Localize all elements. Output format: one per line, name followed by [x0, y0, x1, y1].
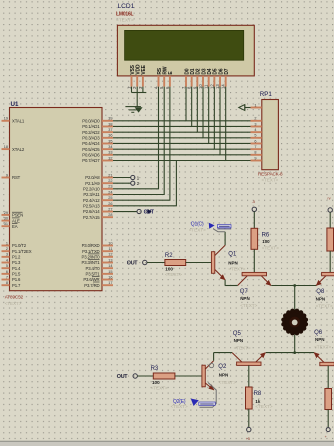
svg-text:Q1: Q1: [228, 251, 237, 257]
wire LCD VDD down: [136, 87, 138, 93]
svg-text:100: 100: [262, 239, 270, 244]
svg-text:P1.7: P1.7: [12, 283, 21, 288]
svg-text:RP1: RP1: [260, 91, 273, 98]
svg-text:P3.1/TXD: P3.1/TXD: [82, 249, 99, 254]
transistor Q2: [202, 365, 205, 387]
transistor Q8: [322, 272, 334, 275]
svg-text:VEE: VEE: [141, 64, 147, 74]
U1 EA overline: [12, 223, 18, 225]
resistor pack RP1 body: [262, 100, 279, 170]
motor: [282, 310, 307, 335]
svg-text:Q7: Q7: [240, 289, 249, 295]
svg-text:<TEXT>: <TEXT>: [165, 272, 182, 277]
svg-text:27: 27: [108, 207, 112, 211]
svg-text:<TEXT>: <TEXT>: [262, 177, 279, 182]
svg-text:RST: RST: [12, 175, 21, 180]
svg-text:P3.4/T0: P3.4/T0: [86, 266, 101, 271]
wire R8 to terminal: [248, 409, 250, 427]
wire bus P0.0-P0.7 to RP1: [113, 120, 251, 122]
voltage probe Q2(E): [200, 383, 217, 408]
U1 ALE overline: [12, 217, 20, 219]
svg-text:10: 10: [198, 84, 203, 89]
svg-text:3: 3: [6, 253, 8, 257]
svg-text:P0.5/AD5: P0.5/AD5: [82, 147, 100, 152]
svg-text:PSEN: PSEN: [12, 213, 23, 218]
LCD1 screen: [125, 30, 244, 60]
svg-text:8: 8: [6, 281, 8, 285]
svg-text:P1.6: P1.6: [12, 277, 21, 282]
wire rail Q5-motor-Q6: [266, 352, 314, 354]
svg-text:22: 22: [108, 179, 112, 183]
U1 INT0 overline: [88, 253, 100, 255]
wire terminal to R7: [329, 212, 331, 228]
U1 right pins with numbers and names: [102, 120, 113, 122]
svg-text:-5: -5: [252, 200, 255, 204]
svg-text:14: 14: [221, 84, 226, 89]
svg-text:30: 30: [4, 217, 8, 221]
svg-text:OUT: OUT: [117, 374, 128, 380]
svg-text:<TEXT>: <TEXT>: [219, 380, 236, 385]
wire R7 to Q8 base: [329, 251, 331, 272]
svg-text:9: 9: [6, 173, 8, 177]
svg-text:P0.6/AD6: P0.6/AD6: [82, 153, 100, 158]
svg-text:25: 25: [108, 196, 112, 200]
svg-text:P2.7/A15: P2.7/A15: [83, 215, 100, 220]
svg-text:P0.2/AD2: P0.2/AD2: [82, 130, 100, 135]
svg-text:P3.0/RXD: P3.0/RXD: [82, 243, 100, 248]
svg-text:<TEXT>: <TEXT>: [262, 245, 279, 250]
svg-text:35: 35: [108, 139, 112, 143]
svg-text:P0.7/AD7: P0.7/AD7: [82, 158, 100, 163]
svg-text:<TEXT>: <TEXT>: [240, 303, 257, 308]
U1 RD overline: [93, 281, 100, 283]
bottom bar: [0, 441, 334, 446]
svg-text:31: 31: [4, 222, 8, 226]
svg-text:NPN: NPN: [234, 338, 244, 343]
svg-text:LM016L: LM016L: [116, 12, 134, 18]
svg-text:5: 5: [6, 264, 8, 268]
svg-text:P3.5/T1: P3.5/T1: [86, 272, 101, 277]
svg-text:2: 2: [6, 247, 8, 251]
svg-text:OUT: OUT: [127, 260, 138, 266]
svg-text:37: 37: [108, 128, 112, 132]
wire Q5 base to R8: [248, 365, 250, 387]
svg-text:6: 6: [254, 139, 256, 143]
svg-text:P0.4/AD4: P0.4/AD4: [82, 141, 100, 146]
power terminal arrow: [239, 105, 245, 111]
svg-text:34: 34: [108, 145, 112, 149]
resistor R9: [325, 389, 332, 410]
microcontroller U1 body: [10, 108, 103, 291]
svg-text:P3.3/INT1: P3.3/INT1: [82, 260, 101, 265]
svg-text:33: 33: [108, 151, 112, 155]
wire RP1 pin1 to power: [245, 107, 251, 109]
wire U1 P2.0 to terminal 1: [113, 177, 131, 179]
wire U1 P2.1 to terminal 2: [113, 182, 131, 184]
svg-text:2: 2: [254, 117, 256, 121]
wire Q1 emitter down: [224, 280, 226, 286]
svg-text:1: 1: [254, 103, 256, 107]
svg-text:P2.6/A14: P2.6/A14: [83, 209, 100, 214]
svg-text:100: 100: [152, 380, 160, 385]
svg-text:P1.4: P1.4: [12, 266, 21, 271]
svg-text:P2.2/A10: P2.2/A10: [83, 187, 100, 192]
transistor Q1: [211, 252, 214, 274]
wire rail Q1-Q7: [225, 285, 238, 287]
svg-text:<TEXT>: <TEXT>: [228, 266, 245, 271]
wire LCD D0-D7 verticals to bus: [185, 87, 187, 121]
terminal node 1: [131, 175, 135, 179]
wire motor bottom feed: [294, 335, 296, 353]
RP1 pin stubs and numbers: [251, 107, 262, 109]
svg-text:11: 11: [204, 84, 209, 89]
svg-text:P1.3: P1.3: [12, 260, 21, 265]
svg-text:NPN: NPN: [316, 297, 326, 302]
svg-text:<TEXT>: <TEXT>: [255, 404, 272, 409]
svg-text:R8: R8: [254, 391, 262, 397]
svg-text:P3.2/INT0: P3.2/INT0: [82, 255, 101, 260]
svg-text:P2.4/A12: P2.4/A12: [83, 198, 100, 203]
svg-text:24: 24: [108, 190, 112, 194]
svg-text:NPN: NPN: [228, 260, 238, 265]
svg-text:7: 7: [254, 145, 256, 149]
junction motor bottom: [293, 351, 296, 354]
svg-text:P0.3/AD3: P0.3/AD3: [82, 136, 100, 141]
svg-text:<TEXT>: <TEXT>: [234, 345, 251, 350]
svg-text:+5: +5: [246, 437, 250, 441]
resistor R6: [251, 228, 258, 249]
power terminal above R6: [252, 207, 256, 211]
U1 INT1 overline: [88, 259, 100, 261]
transistor Q7: [242, 272, 266, 275]
wire R3 to Q2 base: [175, 375, 202, 377]
wire motor top feed: [294, 286, 296, 310]
svg-text:10: 10: [108, 241, 112, 245]
svg-text:16: 16: [108, 275, 112, 279]
svg-text:XTAL1: XTAL1: [12, 119, 25, 124]
svg-text:NPN: NPN: [240, 296, 250, 301]
terminal node 2: [131, 181, 135, 185]
svg-text:36: 36: [108, 134, 112, 138]
svg-text:13: 13: [215, 84, 220, 89]
power terminal above R7: [328, 208, 332, 212]
svg-text:8: 8: [254, 151, 256, 155]
transistor Q5: [237, 362, 261, 365]
svg-text:R6: R6: [262, 232, 270, 238]
svg-text:rv: rv: [328, 196, 331, 200]
wire R2 to Q1 base: [186, 262, 212, 264]
wire Q1 collector up: [224, 232, 226, 245]
svg-text:P1.2: P1.2: [12, 255, 21, 260]
svg-text:<TEXT>: <TEXT>: [314, 344, 331, 349]
ground: [125, 106, 140, 108]
voltage probe Q1(C): [209, 223, 215, 229]
svg-text:NPN: NPN: [219, 373, 229, 378]
svg-text:P0.0/AD0: P0.0/AD0: [82, 119, 100, 124]
svg-text:P3.7/RD: P3.7/RD: [84, 283, 99, 288]
svg-text:1: 1: [137, 175, 140, 181]
svg-text:3: 3: [254, 122, 256, 126]
power terminal below R8: [247, 427, 251, 431]
svg-text:NPN: NPN: [315, 337, 325, 342]
svg-text:18: 18: [4, 145, 8, 149]
svg-text:11: 11: [109, 247, 113, 251]
terminal node OUT (P2.6): [137, 209, 141, 213]
svg-text:5: 5: [254, 134, 256, 138]
svg-text:13: 13: [108, 258, 112, 262]
svg-text:XTAL2: XTAL2: [12, 147, 25, 152]
svg-text:P1.5: P1.5: [12, 272, 21, 277]
resistor R3: [153, 373, 175, 379]
wire OUT to R3: [137, 375, 153, 377]
svg-text:P0.1/AD1: P0.1/AD1: [82, 124, 100, 129]
svg-text:7: 7: [6, 275, 8, 279]
svg-text:EA: EA: [12, 224, 18, 229]
svg-text:28: 28: [108, 213, 112, 217]
wire LCD RS to U1 P2.2: [113, 87, 159, 189]
svg-text:<TEXT>: <TEXT>: [116, 18, 134, 24]
U1 PSEN overline: [12, 211, 23, 213]
wire R9 to terminal: [327, 410, 329, 428]
svg-text:4: 4: [6, 258, 8, 262]
wire tie to ground: [136, 93, 138, 107]
svg-text:LCD1: LCD1: [118, 3, 135, 10]
svg-text:38: 38: [108, 122, 112, 126]
svg-text:P3.6/WR: P3.6/WR: [83, 277, 99, 282]
wire LCD VEE down: [142, 87, 144, 93]
wire LCD E to U1 P2.4: [113, 87, 170, 201]
svg-text:15: 15: [108, 270, 112, 274]
svg-text:P1.1/T2EX: P1.1/T2EX: [12, 249, 32, 254]
svg-text:AT89C52: AT89C52: [5, 294, 24, 299]
resistor R7: [327, 228, 334, 251]
svg-text:<TEXT>: <TEXT>: [189, 227, 206, 232]
svg-text:+: +: [325, 435, 327, 439]
svg-text:P2.0/A8: P2.0/A8: [85, 175, 100, 180]
wire Q6 base to R9: [327, 366, 329, 389]
svg-text:19: 19: [4, 117, 8, 121]
svg-text:Q2: Q2: [218, 364, 227, 370]
svg-text:P2.3/A11: P2.3/A11: [83, 192, 100, 197]
U1 left pins with numbers and names: [2, 120, 10, 122]
svg-text:21: 21: [108, 173, 112, 177]
svg-text:R3: R3: [151, 366, 159, 372]
svg-text:<TEXT>: <TEXT>: [171, 404, 188, 409]
svg-text:26: 26: [108, 202, 112, 206]
svg-text:4: 4: [254, 128, 256, 132]
svg-text:P2.1/A9: P2.1/A9: [85, 181, 100, 186]
svg-text:<TEXT>: <TEXT>: [5, 301, 22, 306]
wire U1 P2.6 to OUT terminal: [113, 211, 137, 213]
wire rail Q7-motor-Q8: [271, 285, 316, 287]
svg-text:29: 29: [4, 211, 8, 215]
svg-text:<TEXT>: <TEXT>: [316, 303, 333, 308]
wire R6 to Q7 base: [253, 249, 255, 272]
power terminal below R9: [326, 428, 330, 432]
svg-text:23: 23: [108, 185, 112, 189]
svg-text:39: 39: [108, 117, 112, 121]
resistor R2: [165, 260, 186, 266]
svg-text:ALE: ALE: [12, 218, 20, 223]
svg-text:P1.0/T2: P1.0/T2: [12, 243, 27, 248]
svg-text:12: 12: [108, 253, 112, 257]
svg-text:12: 12: [209, 84, 214, 89]
LCD1 pin stubs and pin numbers: [131, 76, 133, 87]
svg-text:1k: 1k: [255, 399, 260, 404]
svg-text:Q6: Q6: [314, 330, 323, 336]
wire VSS-VDD-VEE tie: [132, 92, 147, 94]
wire terminal to R6: [253, 212, 255, 229]
junction motor top: [293, 284, 296, 287]
svg-text:RESPACK-8: RESPACK-8: [258, 172, 283, 177]
wire LCD VSS down: [131, 87, 133, 93]
svg-text:Q5: Q5: [233, 331, 242, 337]
svg-text:D7: D7: [224, 68, 230, 74]
svg-text:14: 14: [108, 264, 112, 268]
svg-text:U1: U1: [11, 101, 19, 108]
wire Q2 collector up: [213, 353, 215, 361]
svg-text:9: 9: [254, 156, 256, 160]
svg-text:P2.5/A13: P2.5/A13: [83, 204, 100, 209]
svg-text:100: 100: [165, 266, 173, 271]
svg-text:17: 17: [108, 281, 112, 285]
svg-text:Q8: Q8: [316, 289, 325, 295]
svg-text:R2: R2: [165, 253, 173, 259]
resistor R8: [246, 387, 253, 409]
LCD1 body: [117, 25, 254, 76]
U1 WR overline: [92, 275, 100, 277]
wire OUT to R2: [147, 262, 165, 264]
svg-text:<TEXT>: <TEXT>: [151, 386, 168, 391]
transistor Q6: [320, 362, 334, 365]
svg-text:2: 2: [137, 181, 140, 187]
wire LCD RW to U1 P2.3: [113, 87, 164, 195]
svg-text:32: 32: [108, 156, 112, 160]
svg-text:6: 6: [6, 270, 8, 274]
svg-text:1: 1: [6, 241, 8, 245]
wire U1 P2.5 up to bus: [113, 160, 176, 205]
wire rail Q2-Q5: [214, 352, 233, 354]
